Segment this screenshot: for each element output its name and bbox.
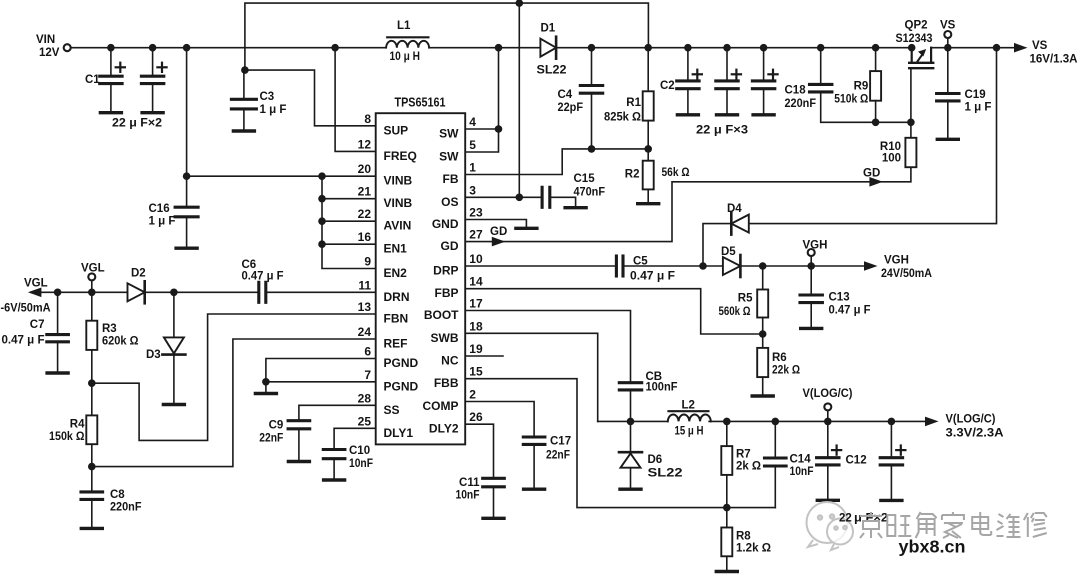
svg-text:1 μ F: 1 μ F — [149, 216, 176, 228]
capacitor C2 electrolytic — [687, 48, 689, 81]
svg-text:R5: R5 — [738, 293, 753, 305]
ground C16 — [176, 246, 197, 249]
node SW pins junction — [495, 125, 503, 133]
arrow GD at pin 27 — [492, 237, 506, 247]
node R5 bottom — [759, 330, 767, 338]
diode D3 — [173, 292, 175, 337]
svg-text:DLY2: DLY2 — [429, 422, 459, 436]
svg-text:10 μ H: 10 μ H — [390, 51, 421, 63]
svg-text:C14: C14 — [790, 454, 812, 466]
terminal VS — [947, 39, 949, 48]
resistor R2 — [643, 161, 654, 190]
ground pin23 — [516, 227, 537, 230]
wire VIN input rail — [71, 47, 386, 49]
capacitor C14 — [774, 421, 776, 458]
node R5 tap — [759, 262, 767, 270]
svg-text:3.3V/2.3A: 3.3V/2.3A — [946, 428, 1004, 440]
node QP2 source — [908, 44, 916, 52]
svg-text:16: 16 — [358, 230, 372, 244]
svg-text:VGH: VGH — [803, 240, 828, 252]
svg-text:21: 21 — [358, 185, 372, 199]
svg-text:0.47 μ F: 0.47 μ F — [829, 305, 871, 317]
svg-text:EN1: EN1 — [384, 242, 408, 256]
wire BOOT pin17 to CB — [465, 311, 630, 383]
wire top SUP/OS loop — [245, 3, 649, 197]
capacitor C4 — [591, 48, 593, 86]
svg-text:FBP: FBP — [435, 286, 459, 300]
svg-text:17: 17 — [469, 297, 483, 311]
svg-text:VINB: VINB — [384, 174, 413, 188]
svg-text:5: 5 — [469, 138, 476, 152]
svg-text:25: 25 — [358, 414, 372, 428]
svg-text:C11: C11 — [459, 477, 480, 489]
svg-text:28: 28 — [358, 391, 372, 405]
wire GND pin23 stub — [465, 220, 526, 227]
wire C16 branch from rail — [186, 48, 188, 208]
wire D4 branch from VS rail — [703, 48, 997, 266]
ground C17 — [524, 488, 545, 491]
wire VS rail QP2 to output arrow — [931, 47, 1014, 49]
svg-text:DLY1: DLY1 — [384, 426, 414, 440]
wire GD pin27 route to R10 — [465, 167, 911, 241]
capacitor CB — [619, 381, 641, 384]
ground C3 — [233, 129, 254, 132]
svg-text:R6: R6 — [772, 352, 787, 364]
node D4 to VGH row — [699, 262, 707, 270]
svg-text:1: 1 — [469, 161, 476, 175]
svg-text:22pF: 22pF — [558, 102, 584, 114]
capacitor C1 — [110, 48, 112, 76]
svg-text:R10: R10 — [880, 141, 901, 153]
resistor R6 — [762, 334, 764, 348]
svg-text:VIN: VIN — [36, 34, 55, 46]
svg-text:R8: R8 — [736, 531, 751, 543]
node VGH terminal tap — [807, 262, 815, 270]
svg-text:8: 8 — [364, 112, 371, 126]
wire COMP pin2 to C17 — [465, 402, 534, 438]
svg-text:C4: C4 — [558, 89, 573, 101]
wire FB pin1 to divider — [465, 149, 648, 175]
arrow output VGH — [864, 261, 878, 271]
svg-text:TPS65161: TPS65161 — [395, 96, 446, 110]
capacitor C5 — [615, 256, 618, 276]
capacitor C17 — [523, 435, 545, 438]
svg-text:C8: C8 — [110, 489, 125, 501]
svg-text:QP2: QP2 — [905, 20, 928, 32]
ground R8 — [716, 570, 737, 573]
wire C6 to DRN pin11 — [266, 291, 376, 293]
svg-text:D4: D4 — [727, 203, 742, 215]
node C12b top — [888, 418, 896, 426]
terminal V(LOG/C) — [827, 411, 829, 421]
resistor R3 — [91, 292, 93, 320]
capacitor C15 — [541, 187, 544, 207]
svg-text:VGL: VGL — [24, 278, 48, 290]
capacitor C18 — [820, 48, 822, 85]
node VGL terminal/R3 — [88, 289, 96, 297]
svg-text:12V: 12V — [39, 47, 60, 59]
svg-text:C19: C19 — [965, 89, 986, 101]
node gate/R10 junction — [907, 119, 915, 127]
ground C19 — [937, 138, 958, 141]
svg-text:C16: C16 — [149, 203, 170, 215]
svg-text:OS: OS — [441, 195, 458, 209]
node junctions on input rail — [107, 44, 115, 52]
svg-text:22: 22 — [839, 513, 852, 525]
arrow GD at R10 — [869, 177, 883, 187]
node VS — [944, 44, 952, 52]
svg-text:510k Ω: 510k Ω — [834, 94, 868, 106]
diode D2 — [128, 283, 145, 301]
svg-text:11: 11 — [358, 278, 371, 292]
svg-text:24: 24 — [358, 325, 372, 339]
wire VINB/AVIN/EN bus — [322, 176, 376, 268]
resistor R10 — [905, 138, 916, 167]
wire QP2 gate lead — [910, 68, 912, 122]
svg-text:D2: D2 — [131, 268, 146, 280]
svg-text:L1: L1 — [397, 20, 411, 32]
wire gate line C18 to R10 top — [821, 92, 911, 122]
diode D4 — [731, 215, 749, 233]
svg-text:1 μ F: 1 μ F — [965, 102, 992, 114]
svg-text:C1: C1 — [85, 74, 100, 86]
svg-text:220nF: 220nF — [785, 98, 817, 110]
svg-text:SW: SW — [439, 150, 459, 164]
svg-text:FREQ: FREQ — [384, 149, 417, 163]
terminal VGL — [91, 281, 93, 292]
wire VINB row to pin 20 — [187, 175, 376, 177]
svg-text:9: 9 — [364, 255, 371, 269]
wire rail L1 to D1 — [429, 47, 540, 49]
svg-text:GD: GD — [441, 239, 459, 253]
capacitor C2b electrolytic — [726, 48, 728, 81]
ground C1b — [142, 111, 163, 114]
svg-text:VS: VS — [1032, 40, 1048, 52]
svg-text:19: 19 — [469, 342, 483, 356]
ground C7 — [47, 371, 68, 374]
node C2b top — [723, 44, 731, 52]
svg-text:SWB: SWB — [431, 331, 459, 345]
capacitor C16 — [175, 206, 198, 209]
svg-text:ybx8.cn: ybx8.cn — [899, 537, 966, 557]
svg-text:VINB: VINB — [384, 196, 413, 210]
node R1 top — [644, 44, 652, 52]
svg-text:FB: FB — [443, 172, 459, 186]
node output terminal — [824, 418, 832, 426]
svg-text:560k Ω: 560k Ω — [719, 306, 751, 318]
svg-text:20: 20 — [358, 162, 372, 176]
wire FREQ route rail to pin 12 — [335, 48, 376, 152]
svg-text:220nF: 220nF — [110, 502, 142, 514]
wire SW pins 4 and 5 to rail — [465, 48, 498, 152]
wire VGH row — [740, 265, 864, 267]
capacitor C7 — [57, 292, 59, 334]
diode D1 SL22 — [540, 39, 556, 57]
svg-text:GD: GD — [863, 168, 880, 180]
svg-text:22nF: 22nF — [259, 433, 283, 445]
svg-text:3: 3 — [469, 183, 476, 197]
node C4 bottom on FB line — [588, 145, 596, 153]
svg-text:NC: NC — [441, 354, 459, 368]
resistor R7 — [726, 421, 728, 446]
resistor R8 — [726, 508, 728, 528]
node C2 top — [684, 44, 692, 52]
op-amp U1 TPS65161 IC body — [376, 113, 466, 444]
svg-text:16V/1.3A: 16V/1.3A — [1030, 54, 1078, 66]
resistor R1 — [647, 48, 649, 92]
wire SWB pin18 to L2 row — [465, 333, 598, 421]
svg-text:BOOT: BOOT — [424, 308, 459, 322]
resistor R4 — [91, 383, 93, 415]
svg-text:R9: R9 — [854, 81, 869, 93]
capacitor C2c electrolytic — [763, 48, 765, 81]
svg-text:6: 6 — [364, 345, 371, 359]
node R7/R8 junction — [723, 504, 731, 512]
svg-text:C3: C3 — [260, 91, 275, 103]
watermark wechat logo — [807, 502, 854, 550]
node R7 top — [723, 418, 731, 426]
wire D2 to C6 — [145, 291, 259, 293]
svg-text:0.47 μ F: 0.47 μ F — [242, 270, 284, 282]
wire FBP pin14 route to R5 bottom — [465, 289, 763, 334]
svg-text:2k Ω: 2k Ω — [736, 461, 761, 473]
svg-text:C6: C6 — [242, 259, 257, 271]
svg-text:SS: SS — [384, 403, 400, 417]
wire NC pin19 stub — [465, 355, 503, 357]
svg-text:825k Ω: 825k Ω — [604, 112, 641, 124]
svg-text:COMP: COMP — [423, 399, 459, 413]
resistor R5 — [762, 266, 764, 290]
inductor L2 — [668, 415, 711, 422]
svg-text:D6: D6 — [648, 454, 663, 466]
node VS output branch — [993, 44, 1001, 52]
node C7 tap — [54, 289, 62, 297]
ground C12 — [817, 499, 838, 502]
wire REF pin24 route — [92, 339, 376, 467]
node D3 tap — [170, 289, 178, 297]
svg-text:-6V/50mA: -6V/50mA — [1, 303, 51, 315]
svg-text:SL22: SL22 — [648, 468, 683, 480]
svg-text:100: 100 — [882, 153, 901, 165]
capacitor C12 electrolytic — [827, 421, 829, 457]
node C2c top — [760, 44, 768, 52]
svg-text:REF: REF — [384, 337, 408, 351]
inductor L1 — [386, 41, 429, 48]
svg-text:10: 10 — [469, 252, 483, 266]
ground C2c — [753, 113, 774, 116]
svg-text:FBN: FBN — [384, 312, 409, 326]
wire SUP route from C3 node to pin 8 — [245, 70, 376, 126]
ground C9 — [288, 460, 309, 463]
ground C2b — [717, 113, 738, 116]
arrow output VGL — [28, 288, 42, 298]
node R9 bottom — [872, 119, 880, 127]
svg-text:22nF: 22nF — [546, 450, 570, 462]
diode D5 charge pump — [723, 257, 741, 275]
svg-text:0.47 μ F: 0.47 μ F — [630, 271, 675, 283]
svg-text:C13: C13 — [829, 292, 850, 304]
arrow output VS — [1014, 43, 1028, 53]
node C4 top — [588, 44, 596, 52]
svg-text:D3: D3 — [146, 349, 161, 361]
svg-text:DRP: DRP — [433, 264, 458, 278]
svg-text:VS: VS — [940, 20, 956, 32]
capacitor C12b electrolytic — [890, 421, 892, 457]
svg-text:C12: C12 — [846, 455, 867, 467]
ground PGND — [255, 392, 276, 395]
ground C1 — [100, 111, 121, 114]
terminal VGH — [810, 257, 812, 266]
node R3/R4 junction — [88, 379, 96, 387]
svg-text:470nF: 470nF — [574, 187, 606, 199]
wire C15 to ground stub — [550, 197, 576, 205]
svg-text:18: 18 — [469, 319, 483, 333]
svg-text:0.47 μ F: 0.47 μ F — [2, 335, 45, 347]
svg-text:GD: GD — [490, 226, 507, 238]
svg-text:C17: C17 — [550, 436, 571, 448]
svg-text:D5: D5 — [721, 246, 736, 258]
svg-text:56k Ω: 56k Ω — [662, 167, 690, 179]
svg-text:PGND: PGND — [384, 379, 419, 393]
capacitor C19 — [947, 48, 949, 94]
svg-text:22 μ F×2: 22 μ F×2 — [112, 118, 162, 130]
wire VGL output row — [31, 291, 128, 293]
svg-text:7: 7 — [364, 368, 371, 382]
ground C8 — [81, 527, 102, 530]
capacitor C11 — [483, 477, 505, 480]
wire FBN pin13 route — [92, 314, 376, 440]
svg-text:24V/50mA: 24V/50mA — [881, 268, 932, 280]
svg-text:SL22: SL22 — [537, 65, 567, 77]
ground C2 — [677, 113, 698, 116]
svg-text:AVIN: AVIN — [384, 219, 412, 233]
svg-text:S12343: S12343 — [896, 33, 933, 45]
svg-text:DRN: DRN — [384, 290, 410, 304]
svg-text:V(LOG/C): V(LOG/C) — [803, 388, 853, 400]
node SW junction rail — [495, 44, 503, 52]
svg-text:C18: C18 — [785, 85, 807, 97]
svg-text:D1: D1 — [541, 23, 556, 35]
svg-text:12: 12 — [358, 137, 372, 151]
capacitor C9 — [288, 419, 310, 422]
svg-text:150k Ω: 150k Ω — [49, 431, 85, 443]
svg-text:C7: C7 — [30, 319, 45, 331]
wire FBB pin15 route — [465, 379, 775, 508]
svg-text:R7: R7 — [736, 449, 751, 461]
capacitor C3 — [243, 70, 245, 99]
svg-text:22 μ F×3: 22 μ F×3 — [696, 125, 748, 137]
svg-text:620k Ω: 620k Ω — [102, 336, 139, 348]
node junctions top loop — [516, 0, 524, 7]
svg-text:R4: R4 — [70, 419, 85, 431]
wire OS row pin3 to C15 — [465, 196, 542, 198]
svg-text:27: 27 — [469, 228, 483, 242]
wire DLY1 pin25 to C10 — [334, 428, 376, 449]
node PGND junction — [262, 378, 270, 386]
svg-text:26: 26 — [469, 410, 483, 424]
svg-text:EN2: EN2 — [384, 266, 408, 280]
svg-text:R1: R1 — [626, 97, 641, 109]
wire C5 to D5 — [623, 265, 723, 267]
ground D3 — [163, 403, 184, 406]
ground C10 — [324, 478, 345, 481]
svg-text:SW: SW — [439, 127, 459, 141]
node R9 top — [872, 44, 880, 52]
wire PGND pins 6 and 7 — [266, 359, 376, 392]
svg-text:C10: C10 — [349, 445, 370, 457]
svg-text:L2: L2 — [682, 400, 695, 412]
node CB/D6 junction — [627, 418, 635, 426]
terminal VIN — [64, 44, 71, 51]
wire DLY2 pin26 to C11 — [465, 424, 493, 478]
ground C13 — [801, 327, 822, 330]
node C14 top — [772, 418, 780, 426]
svg-text:VGL: VGL — [81, 263, 105, 275]
diode D6 SL22 — [630, 421, 632, 451]
wire output row left of L2 — [598, 420, 668, 422]
svg-text:PGND: PGND — [384, 356, 419, 370]
svg-text:R2: R2 — [625, 169, 640, 181]
svg-text:1 μ F: 1 μ F — [260, 104, 287, 116]
svg-text:C9: C9 — [269, 420, 284, 432]
node R1 bottom FB junction — [644, 145, 652, 153]
ground C12b — [881, 499, 902, 502]
wire DRP row pin10 to C5 — [465, 265, 616, 267]
svg-text:R3: R3 — [102, 323, 117, 335]
svg-text:VGH: VGH — [884, 255, 909, 267]
svg-text:14: 14 — [469, 275, 483, 289]
ground C15 — [565, 206, 586, 209]
wire output row right of L2 — [709, 420, 925, 422]
svg-text:4: 4 — [469, 115, 476, 129]
svg-text:22: 22 — [358, 207, 372, 221]
svg-text:V(LOG/C): V(LOG/C) — [946, 414, 996, 426]
transistor QP2 S12343 p-mosfet — [911, 48, 913, 63]
capacitor C8 — [91, 467, 93, 492]
svg-text:10nF: 10nF — [790, 466, 814, 478]
svg-text:10nF: 10nF — [349, 458, 373, 470]
capacitor C1b (22uF x2 pair) — [152, 48, 154, 76]
svg-text:100nF: 100nF — [646, 382, 678, 394]
ground D6 — [620, 488, 641, 491]
svg-text:15: 15 — [469, 365, 483, 379]
svg-text:23: 23 — [469, 206, 483, 220]
wire SS pin28 to C9 — [299, 405, 376, 420]
wire VS rail D1 to QP2 — [556, 47, 912, 49]
node R4 bottom — [88, 463, 96, 471]
arrow output V(LOG/C) — [925, 417, 939, 427]
svg-text:22k Ω: 22k Ω — [772, 365, 800, 377]
svg-text:SUP: SUP — [384, 123, 409, 137]
svg-text:13: 13 — [358, 300, 372, 314]
capacitor C10 — [323, 448, 345, 451]
node C18 top — [817, 44, 825, 52]
node junctions VINB bus — [183, 172, 191, 180]
resistor R9 — [875, 48, 877, 71]
watermark chinese characters jing wang jiao jia dian wei xiu — [860, 512, 882, 538]
svg-text:C15: C15 — [574, 173, 596, 185]
ground R2 — [638, 202, 659, 205]
svg-text:10nF: 10nF — [456, 490, 480, 502]
svg-text:C2: C2 — [660, 80, 675, 92]
svg-text:GND: GND — [432, 217, 459, 231]
ground C11 — [483, 517, 504, 520]
capacitor C6 — [257, 282, 260, 302]
ground R6 — [752, 394, 773, 397]
svg-text:FBB: FBB — [434, 376, 459, 390]
capacitor C13 — [810, 266, 812, 295]
svg-text:2: 2 — [469, 388, 476, 402]
